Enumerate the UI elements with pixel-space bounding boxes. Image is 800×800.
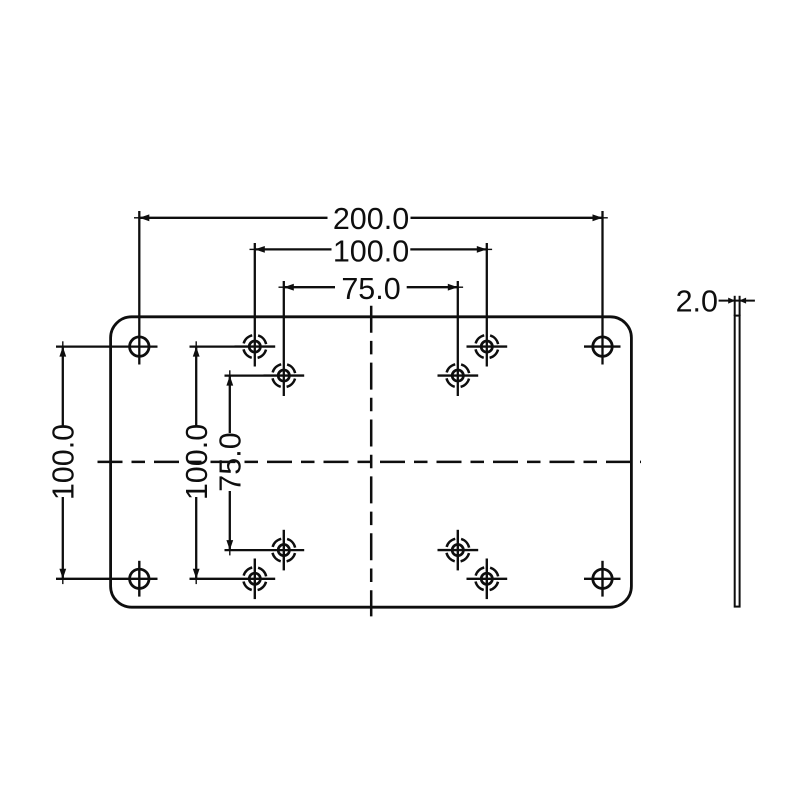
plate outline <box>111 317 632 607</box>
svg-text:75.0: 75.0 <box>214 432 248 491</box>
hole C bottom-left corner <box>130 561 149 597</box>
side view plate <box>735 316 740 607</box>
svg-text:75.0: 75.0 <box>341 272 400 306</box>
hole F inner 100 top-right <box>467 335 508 358</box>
hole G inner 75 top-left <box>264 364 305 387</box>
dimension 2.0 side <box>719 296 755 316</box>
hole A top-left corner <box>130 337 149 356</box>
hole K inner 75 bottom-right <box>438 530 479 571</box>
centerline horizontal <box>98 461 642 464</box>
dimension 75.0 top <box>279 281 464 396</box>
hole E inner 100 top-left <box>235 335 276 358</box>
dimension 100.0 left outer <box>56 341 158 584</box>
centerline vertical <box>370 306 373 617</box>
svg-text:200.0: 200.0 <box>333 202 409 236</box>
svg-text:100.0: 100.0 <box>47 424 81 500</box>
hole J inner 75 bottom-left <box>272 530 295 571</box>
hole L inner 100 bottom-right <box>467 559 508 600</box>
hole B top-right corner <box>584 337 621 356</box>
hole H inner 75 top-right <box>438 364 479 387</box>
dimension 75.0 left inner <box>225 370 305 555</box>
svg-text:100.0: 100.0 <box>180 424 214 500</box>
hole D bottom-right corner <box>584 561 621 597</box>
hole I inner 100 bottom-left <box>243 559 266 600</box>
dimension 100.0 top inner <box>250 243 493 367</box>
svg-text:100.0: 100.0 <box>333 235 409 269</box>
dimension 100.0 left inner <box>190 341 276 584</box>
dimension 200.0 top <box>134 211 608 365</box>
svg-text:2.0: 2.0 <box>676 285 718 319</box>
